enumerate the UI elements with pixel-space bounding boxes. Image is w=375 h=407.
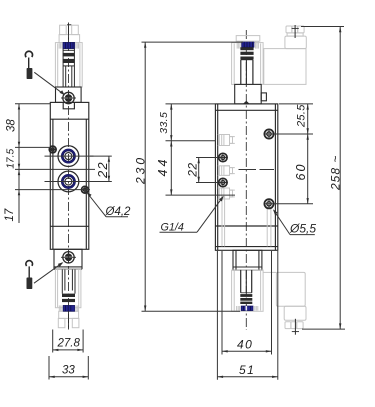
dim line 51 — [217, 376, 277, 378]
bottom connector crosshair — [294, 319, 296, 335]
dim 22 (right view) extension lines — [196, 157, 218, 159]
top solenoid nut blue (right view) — [242, 41, 254, 49]
small hole lower-right phi4.2 — [81, 186, 88, 193]
svg-text:17: 17 — [4, 208, 16, 221]
svg-text:33: 33 — [62, 365, 75, 377]
dim line 17.5 — [18, 147, 20, 169]
screw hole lower-left (right view) — [218, 178, 227, 187]
upper port center line — [45, 155, 94, 157]
bottom solenoid coil outline (gray) — [55, 269, 81, 327]
manual override pin mark (top center) — [243, 101, 250, 104]
leader from key to bottom screw — [34, 262, 63, 283]
top solenoid tube (right view) — [240, 47, 253, 84]
svg-text:27.8: 27.8 — [57, 338, 81, 350]
mounting hole upper-right phi5.5 — [264, 129, 274, 139]
upper port (left view) — [58, 146, 79, 167]
dim line 27.8 — [53, 349, 83, 351]
dim 258 bottom extension line — [302, 328, 345, 330]
svg-text:22: 22 — [185, 162, 199, 177]
bottom solenoid tube and armature — [62, 269, 75, 302]
svg-text:258 ~: 258 ~ — [329, 155, 343, 191]
manual override key icon (top left) — [25, 51, 32, 79]
top solenoid retaining nut (blue hatched) — [63, 42, 75, 48]
center axis line (right view, vertical dash-dot) — [245, 30, 247, 330]
top solenoid thread lines gray (right view) — [236, 36, 260, 49]
dim 38/17.5 extension line — [15, 146, 49, 148]
hidden hole lines below lower-left screw (gray) — [222, 196, 225, 246]
dim line 38 — [18, 104, 20, 148]
dim 38 extension line top — [15, 103, 50, 105]
dim 22 (left view ports) extension lines — [90, 155, 112, 157]
bottom solenoid thread lines gray (right view) — [237, 306, 258, 311]
dim line 22 (left view) — [108, 156, 110, 181]
svg-text:44: 44 — [156, 157, 170, 177]
dim 60 bottom extension line (lower hole axis) — [275, 203, 314, 205]
dim 40 extension lines — [221, 251, 223, 355]
svg-text:Ø4,2: Ø4,2 — [105, 206, 132, 218]
dim line 258 — [339, 27, 341, 330]
dim line 44 — [170, 141, 172, 195]
top connector block (gray) — [264, 26, 307, 84]
bottom solenoid nut blue (right view) — [241, 306, 253, 311]
dim line 33.5 — [170, 104, 172, 141]
hidden hole lines below lower-right hole (gray) — [267, 209, 271, 246]
G1/4 port profile lower (gray) — [218, 188, 235, 199]
bottom cap block — [54, 249, 82, 269]
svg-text:230: 230 — [134, 155, 148, 185]
valve body (right view) — [215, 104, 277, 250]
leader phi4.2 — [87, 192, 128, 217]
leader from key to top screw — [34, 72, 64, 95]
G1/4 port profile middle (gray) — [218, 166, 235, 176]
G1/4 underline and leader — [160, 196, 224, 232]
G1/4 port profile upper (gray) — [218, 135, 235, 146]
dim line 17 (line extended below, arrows pointing up) — [18, 169, 20, 223]
bottom solenoid nut (blue hatched) — [63, 305, 74, 311]
dim 258 top extension line — [301, 26, 344, 28]
dim 25.5 top extension line — [279, 103, 313, 105]
dim 230 top extension line — [142, 41, 244, 43]
horizontal axis dash (mid body) — [239, 169, 257, 171]
dim 51 extension lines — [216, 251, 218, 380]
bottom manual override screw — [61, 251, 76, 263]
top solenoid coil outline gray (right view) — [232, 43, 264, 85]
screw hole upper-left (right view) — [218, 153, 227, 162]
svg-text:38: 38 — [6, 119, 18, 132]
dim 230 bottom extension line — [142, 310, 241, 312]
svg-text:51: 51 — [239, 363, 255, 377]
dim line 60 — [307, 134, 309, 204]
top solenoid coil outline (gray) — [55, 25, 82, 87]
svg-text:60: 60 — [294, 163, 308, 181]
bottom solenoid mounting block (right view) — [233, 250, 262, 270]
svg-text:22: 22 — [95, 161, 110, 179]
top connector crosshair — [294, 25, 296, 38]
manual override key icon (bottom left) — [26, 261, 33, 289]
center axis line (left view, vertical dash-dot) — [68, 26, 70, 330]
top solenoid tube and armature — [63, 49, 75, 87]
svg-text:17.5: 17.5 — [6, 148, 17, 168]
dim 17 extension line bottom — [15, 189, 90, 191]
lower port (left view) — [58, 171, 79, 192]
dim 44 bottom extension line — [166, 194, 236, 196]
leader phi5.5 — [273, 209, 315, 234]
bottom connector cross mark — [68, 311, 70, 329]
small hole upper-left (body edge) — [49, 146, 56, 153]
svg-text:G1/4: G1/4 — [161, 221, 184, 233]
dim line 22 (right view) — [198, 158, 200, 183]
top connector cross mark — [67, 24, 71, 26]
dim 17.5/17 extension line (mid axis) — [15, 168, 95, 170]
mounting hole lower-right phi5.5 — [264, 199, 274, 209]
top mounting block — [56, 87, 82, 102]
bottom solenoid coil outline gray (right view) — [232, 270, 264, 311]
dim line 230 — [144, 42, 146, 311]
svg-text:25.5: 25.5 — [296, 104, 308, 128]
dim 27.8 extension lines — [52, 330, 54, 353]
dim 25.5/60 extension line (upper hole axis) — [275, 133, 314, 135]
dim 33.5 top extension line — [166, 103, 216, 105]
dim line 33 — [49, 376, 88, 378]
top solenoid mounting block (right view) — [235, 84, 267, 104]
dim line 25.5 — [307, 104, 309, 134]
dim 33 extension lines — [48, 356, 50, 380]
bottom solenoid tube (right view) — [233, 267, 262, 304]
bottom connector block (gray) — [263, 272, 306, 328]
top manual override screw — [61, 92, 76, 104]
dim 33.5/44 boundary extension line — [166, 140, 216, 142]
svg-text:33.5: 33.5 — [158, 112, 170, 134]
valve body (left view) — [50, 102, 89, 249]
svg-text:Ø5,5: Ø5,5 — [289, 222, 316, 236]
lower port center line — [45, 181, 94, 183]
svg-text:40: 40 — [237, 337, 253, 351]
dim line 40 — [222, 350, 272, 352]
